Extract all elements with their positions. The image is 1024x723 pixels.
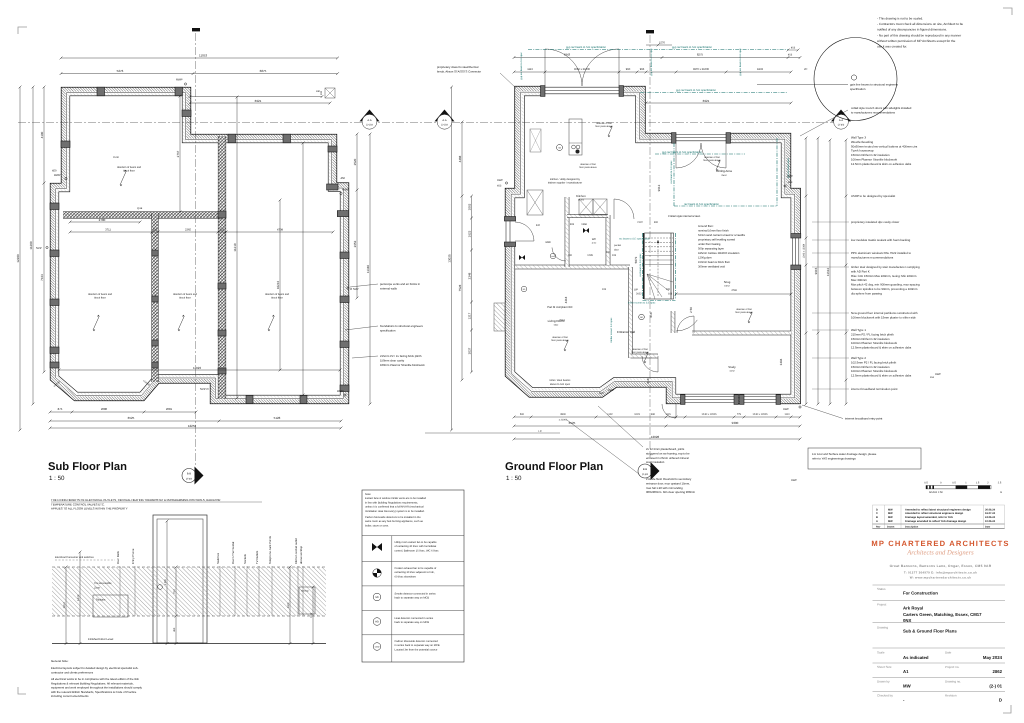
svg-text:- This drawing is not to be sc: - This drawing is not to be scaled. (877, 17, 923, 21)
svg-text:150mm beam & block floor: 150mm beam & block floor (698, 261, 730, 264)
window french door top-left (545, 85, 619, 97)
svg-text:gain line beams to structural: gain line beams to structural engineers (850, 83, 899, 87)
svg-text:entrance door, max upstand 15m: entrance door, max upstand 15mm, (646, 481, 690, 485)
svg-text:direction of first: direction of first (736, 308, 752, 311)
svg-text:2913: 2913 (559, 319, 565, 322)
svg-text:Cooker exhaust fan to be capab: Cooker exhaust fan to be capable of (395, 567, 437, 570)
svg-text:x 2100h: x 2100h (559, 419, 568, 422)
svg-text:Utility room extract fan to be: Utility room extract fan to be capable (395, 541, 438, 544)
svg-text:2862: 2862 (992, 669, 1002, 674)
svg-text:with AD Part K: with AD Part K (851, 269, 870, 273)
svg-text:26 m2: 26 m2 (578, 199, 585, 202)
svg-text:900x900mm. Min clear opening 9: 900x900mm. Min clear opening 900mm (646, 490, 696, 494)
svg-text:Project no.: Project no. (945, 665, 960, 669)
svg-text:Zone: Zone (94, 586, 100, 589)
svg-text:periscope vents and air bricks: periscope vents and air bricks in (380, 282, 420, 286)
svg-text:in line with Building Regulati: in line with Building Regulations requir… (365, 501, 418, 504)
svg-text:11613: 11613 (826, 268, 830, 276)
svg-text:453: 453 (930, 376, 935, 379)
svg-text:TV Outlets: TV Outlets (255, 550, 259, 564)
svg-text:A-A: A-A (367, 119, 372, 122)
svg-text:215mm P2 / FL facing brick pli: 215mm P2 / FL facing brick plinth (380, 354, 422, 358)
section marker A-A mid (435, 110, 455, 122)
svg-text:Max 300mm: Max 300mm (851, 278, 867, 282)
svg-text:max fall 1:40 with min landing: max fall 1:40 with min landing (646, 486, 683, 490)
svg-text:3711: 3711 (105, 228, 111, 231)
svg-text:300mm ventilated void: 300mm ventilated void (698, 266, 725, 269)
svg-text:500p separating layer: 500p separating layer (698, 248, 724, 251)
svg-text:RWP: RWP (176, 78, 183, 82)
svg-text:refer to YAS engineerings draw: refer to YAS engineerings drawings (812, 456, 856, 460)
svg-text:B-B: B-B (643, 468, 648, 471)
svg-text:C: C (876, 512, 878, 515)
svg-text:315: 315 (153, 228, 158, 231)
svg-text:450: 450 (173, 627, 176, 632)
svg-text:CMD: CMD (375, 646, 380, 649)
svg-text:internet broadband termination: internet broadband termination point (851, 387, 898, 391)
svg-text:Extract fans & window trickle: Extract fans & window trickle vents are … (365, 497, 427, 500)
svg-text:Telephone Jack Points: Telephone Jack Points (268, 535, 272, 564)
svg-text:Drainage layout amended, refer: Drainage layout amended, refer to YAS (905, 516, 953, 519)
svg-text:1113: 1113 (527, 68, 533, 71)
svg-text:control, Bathroom 15 l/sec, WC: control, Bathroom 15 l/sec, WC 6 l/sec (395, 549, 440, 552)
section line B-B ground (649, 35, 651, 458)
svg-text:Max pitch 42 deg, min 900mm gu: Max pitch 42 deg, min 900mm guarding, ma… (851, 283, 920, 287)
detail circle (814, 38, 897, 121)
partition horizontal upper (63, 211, 222, 218)
svg-text:manufacturers recommendations: manufacturers recommendations (851, 255, 894, 259)
svg-text:Revision: Revision (945, 694, 957, 698)
svg-text:SCALE 1:50: SCALE 1:50 (929, 491, 943, 494)
svg-text:103: 103 (612, 254, 617, 257)
svg-text:1102: 1102 (607, 413, 613, 416)
svg-text:O SVP: O SVP (350, 287, 359, 291)
svg-text:contractor and clients prefere: contractor and clients preferences (51, 670, 94, 674)
svg-text:53mm sand cement screed or scr: 53mm sand cement screed or screedfix (698, 234, 746, 237)
svg-text:12280: 12280 (16, 254, 20, 263)
svg-text:of extracting 30 l/sec with hu: of extracting 30 l/sec with humidistat (395, 545, 437, 548)
svg-text:I-C: I-C (538, 430, 542, 433)
svg-text:timber stair designed by stair: timber stair designed by stair manufactu… (851, 265, 920, 269)
svg-text:50x50mm treated sw vertical ba: 50x50mm treated sw vertical battens at 4… (851, 144, 918, 148)
svg-text:Amended to reflect latest stru: Amended to reflect latest structural eng… (905, 508, 971, 511)
scale bar (926, 486, 991, 489)
svg-text:kitchen supplier / manufacture: kitchen supplier / manufacturer (548, 182, 582, 185)
svg-text:gyp rec beam to S.E spec: gyp rec beam to S.E spec (520, 52, 523, 80)
svg-text:6921: 6921 (703, 99, 710, 103)
svg-text:RWP: RWP (787, 175, 793, 178)
svg-text:1063: 1063 (467, 203, 471, 210)
svg-text:7528: 7528 (458, 284, 462, 291)
svg-text:Q 88: Q 88 (137, 207, 143, 210)
svg-text:1 200: 1 200 (164, 579, 167, 586)
svg-text:A: A (876, 520, 878, 523)
svg-text:wool insulation: wool insulation (646, 460, 665, 464)
svg-text:Electrical Consumer unit switc: Electrical Consumer unit switches (55, 556, 94, 559)
svg-text:Checked by: Checked by (877, 694, 893, 698)
svg-text:24.06.24: 24.06.24 (985, 516, 996, 519)
svg-text:Entry Phone: Entry Phone (131, 548, 135, 564)
svg-text:to manufacturers recommendatio: to manufacturers recommendations (851, 110, 896, 114)
svg-text:15m2: 15m2 (724, 285, 730, 288)
svg-text:W: www.mpcharteredarchitects.c: W: www.mpcharteredarchitects.co.uk (910, 576, 972, 580)
svg-text:direction of first: direction of first (580, 163, 596, 166)
svg-text:315: 315 (220, 228, 225, 231)
svg-text:L040: L040 (551, 255, 555, 258)
svg-text:MW: MW (888, 512, 893, 515)
svg-text:Carters Green, Matching, Essex: Carters Green, Matching, Essex, CM17 (903, 612, 982, 617)
svg-text:timber screen to S.E spec: timber screen to S.E spec (628, 302, 656, 305)
svg-text:1 : 50: 1 : 50 (506, 475, 522, 482)
svg-text:1570: 1570 (659, 42, 665, 45)
svg-text:9613: 9613 (657, 184, 661, 191)
svg-text:Kitchen: Kitchen (576, 194, 586, 198)
svg-text:9 00: 9 00 (310, 612, 313, 617)
svg-text:4100: 4100 (40, 131, 44, 138)
svg-text:Scale: Scale (877, 651, 885, 655)
svg-text:(2-)04: (2-)04 (186, 477, 193, 480)
svg-text:Description: Description (905, 525, 919, 528)
svg-text:453: 453 (788, 181, 793, 184)
svg-text:4748: 4748 (731, 289, 737, 292)
svg-text:PPC aluminium windows RAL 7022: PPC aluminium windows RAL 7022 installed… (851, 251, 911, 255)
svg-text:Sheet Size: Sheet Size (877, 665, 892, 669)
svg-text:MW: MW (888, 516, 893, 519)
svg-text:2.5: 2.5 (998, 481, 1002, 484)
svg-text:gyp rec beam to S.E specificat: gyp rec beam to S.E specification (662, 151, 702, 154)
notes below ground floor (598, 406, 643, 447)
svg-text:HD: HD (375, 621, 379, 624)
svg-text:2780: 2780 (99, 218, 106, 222)
svg-text:1100: 1100 (287, 602, 290, 608)
svg-text:942: 942 (536, 224, 541, 227)
svg-text:RWP: RWP (935, 373, 941, 376)
svg-text:Finished Floor Level: Finished Floor Level (88, 637, 114, 641)
svg-text:1240 x 1200h: 1240 x 1200h (752, 413, 768, 416)
svg-text:dia sphere from passing: dia sphere from passing (851, 291, 882, 295)
svg-text:1110: 1110 (784, 413, 790, 416)
svg-text:Snug: Snug (724, 280, 731, 284)
svg-text:UP: UP (634, 288, 638, 292)
svg-text:- No part of this drawing shou: - No part of this drawing should be repr… (877, 33, 961, 37)
svg-text:timber screen S.E spec: timber screen S.E spec (610, 317, 613, 343)
window french door top-right (676, 132, 726, 144)
svg-text:rec beam to S.E spec: rec beam to S.E spec (670, 160, 673, 184)
svg-text:Ground floor:: Ground floor: (698, 225, 714, 228)
svg-text:gyp rec beam to S.E spec: gyp rec beam to S.E spec (739, 48, 742, 76)
svg-text:4488: 4488 (458, 155, 462, 162)
chimney hatch outside left wall (494, 303, 505, 331)
svg-text:2520: 2520 (353, 158, 357, 165)
front door opening left wall (504, 221, 516, 242)
window right wall (791, 238, 801, 265)
svg-text:100mm blockwork with 15mm plas: 100mm blockwork with 15mm plaster to eit… (851, 315, 916, 319)
svg-text:nominal 10mm floor finish: nominal 10mm floor finish (698, 230, 729, 233)
svg-text:direction of first: direction of first (704, 156, 720, 159)
revision table (873, 505, 1005, 529)
svg-text:Sub & Ground Floor Plans: Sub & Ground Floor Plans (903, 629, 957, 634)
svg-text:8275: 8275 (697, 53, 704, 57)
svg-text:150mm Dritherm 32 insulation: 150mm Dritherm 32 insulation (851, 153, 890, 157)
svg-text:RWP: RWP (54, 173, 61, 177)
svg-text:proprietary dowel to steel/the: proprietary dowel to steel/thermal (437, 65, 479, 69)
svg-text:boiler, stove or oven.: boiler, stove or oven. (365, 524, 389, 527)
wc partition walls (515, 265, 630, 270)
svg-text:16.07.24: 16.07.24 (985, 512, 996, 515)
svg-text:2080: 2080 (101, 407, 108, 411)
svg-text:4708: 4708 (277, 228, 283, 231)
svg-text:Drawn by: Drawn by (877, 680, 890, 684)
svg-text:foundations to structural engi: foundations to structural engineers (380, 324, 424, 328)
svg-text:D: D (876, 508, 878, 511)
svg-text:453: 453 (788, 54, 793, 57)
svg-text:- Contractors must check all d: - Contractors must check all dimensions … (877, 22, 963, 26)
svg-text:6921: 6921 (255, 99, 262, 103)
svg-text:gyp rec beam to S.E specificat: gyp rec beam to S.E specification (566, 46, 606, 49)
svg-text:notified of any discrepancies: notified of any discrepancies in figured… (877, 28, 947, 32)
svg-text:12.5mm plasterboard & skim on: 12.5mm plasterboard & skim on adhesive d… (851, 346, 912, 350)
svg-text:RWP: RWP (337, 389, 344, 393)
partition vertical left rooms (151, 213, 158, 382)
svg-text:Date: Date (985, 525, 991, 528)
svg-text:779: 779 (737, 413, 742, 416)
svg-text:Weatherboarding: Weatherboarding (851, 140, 874, 144)
svg-text:gyp rec beam to S.E specificat: gyp rec beam to S.E specification (672, 46, 712, 49)
svg-text:Rev: Rev (876, 525, 881, 528)
svg-text:Wall Type 1: Wall Type 1 (851, 328, 866, 332)
svg-text:(2-)03: (2-)03 (441, 124, 448, 127)
wc fixtures (583, 228, 589, 233)
svg-text:SVP: SVP (36, 246, 42, 250)
svg-text:encased in 25mm unfaced minera: encased in 25mm unfaced mineral (646, 456, 689, 460)
svg-text:Heat detector connected in ser: Heat detector connected in series (395, 617, 434, 620)
detail symbol box (325, 88, 335, 98)
Sub Floor Plan walls (50, 87, 349, 404)
svg-text:2081: 2081 (166, 407, 173, 411)
svg-text:A1: A1 (903, 669, 909, 674)
svg-text:1200g dpm: 1200g dpm (698, 257, 712, 260)
svg-text:Worktop: Worktop (301, 590, 310, 593)
svg-text:10.06.24: 10.06.24 (985, 520, 996, 523)
svg-text:500: 500 (520, 413, 525, 416)
partition mid vertical (218, 136, 226, 399)
svg-text:RWP: RWP (608, 389, 614, 392)
svg-text:3494: 3494 (779, 358, 783, 365)
svg-text:APPLIES TO ALL FLOOR LEVELS WI: APPLIES TO ALL FLOOR LEVELS WITHIN THE P… (51, 507, 128, 511)
svg-text:1240 x 1200h: 1240 x 1200h (803, 243, 806, 258)
svg-text:A-A: A-A (442, 119, 447, 122)
section line A-A (18, 121, 846, 123)
svg-text:May 2024: May 2024 (983, 655, 1003, 660)
svg-text:14 00: 14 00 (77, 594, 80, 601)
svg-text:external walls: external walls (380, 286, 398, 290)
svg-text:2122: 2122 (637, 221, 643, 224)
svg-text:Switches: Switches (216, 552, 220, 564)
svg-text:MP CHARTERED ARCHITECTS: MP CHARTERED ARCHITECTS (871, 539, 1009, 548)
svg-text:without written permission of: without written permission of MP Archite… (877, 39, 956, 43)
svg-text:125 0: 125 0 (63, 602, 66, 609)
svg-text:floor joists above: floor joists above (579, 166, 597, 169)
svg-text:(2-)04: (2-)04 (642, 473, 649, 476)
svg-text:Ventilation Heat Recovery) sys: Ventilation Heat Recovery) system is to … (365, 510, 425, 513)
svg-text:6525: 6525 (569, 421, 576, 425)
svg-text:use it was created for.: use it was created for. (877, 45, 907, 49)
svg-text:RWP: RWP (783, 408, 789, 411)
svg-text:220: 220 (320, 90, 323, 95)
living room partition (628, 267, 633, 358)
svg-text:Architects and Designers: Architects and Designers (906, 550, 974, 557)
svg-text:100mm Plasmor Stranlite blockw: 100mm Plasmor Stranlite blockwork (851, 158, 898, 162)
svg-text:in series back to separate way: in series back to separate way on MCB. (395, 644, 441, 647)
svg-text:875: 875 (58, 407, 63, 411)
svg-text:rec beam to S.E specification: rec beam to S.E specification (619, 238, 651, 241)
svg-text:Drawing: Drawing (877, 626, 888, 630)
svg-text:215mm P2 / FL facing brick pli: 215mm P2 / FL facing brick plinth (851, 332, 894, 336)
svg-text:Drawing no.: Drawing no. (945, 680, 961, 684)
svg-text:330: 330 (651, 413, 656, 416)
svg-text:Tyvek housewrap: Tyvek housewrap (851, 149, 874, 153)
svg-text:extracting 30 l/sec adjacent t: extracting 30 l/sec adjacent to hob, (395, 571, 435, 574)
svg-text:1023: 1023 (634, 413, 640, 416)
svg-text:lintel / steel beams: lintel / steel beams (550, 379, 571, 382)
svg-text:102.5mm P2 / FL facing brick p: 102.5mm P2 / FL facing brick plinth (851, 360, 897, 364)
svg-text:Ground Floor Plan: Ground Floor Plan (505, 461, 603, 473)
svg-text:Study: Study (728, 365, 736, 369)
svg-text:100mm Plasmor Stranlite blockw: 100mm Plasmor Stranlite blockwork (851, 369, 898, 373)
svg-text:3500: 3500 (560, 413, 566, 416)
svg-text:Radiator: Radiator (96, 599, 106, 602)
svg-text:direction of first: direction of first (552, 336, 568, 339)
svg-text:2348: 2348 (467, 272, 471, 279)
svg-text:For Foul and Surface water dra: For Foul and Surface water drainage desi… (812, 452, 877, 456)
svg-text:100mm Plasmor Stranlite blockw: 100mm Plasmor Stranlite blockwork (851, 341, 898, 345)
svg-text:rec beam to S.E specification: rec beam to S.E specification (684, 203, 719, 206)
door swing arcs (545, 49, 582, 86)
svg-text:3060 x 2100h: 3060 x 2100h (574, 68, 591, 71)
svg-text:450: 450 (341, 177, 346, 180)
svg-text:6875: 6875 (260, 69, 267, 73)
svg-text:under floor heating: under floor heating (698, 243, 721, 246)
section marker B-B sub (182, 469, 196, 483)
Ground Floor Plan walls (505, 86, 800, 404)
svg-text:1 : 50: 1 : 50 (49, 475, 65, 482)
svg-text:above worktop: above worktop (299, 545, 303, 564)
piers/lintels sub floor (61, 141, 70, 148)
section marker A-A right (831, 110, 851, 122)
svg-text:unless it is confirmed that a: unless it is confirmed that a full MVHR … (365, 506, 424, 509)
svg-text:11023: 11023 (193, 366, 201, 370)
svg-text:918: 918 (646, 378, 650, 383)
svg-text:ASHP to be designed by special: ASHP to be designed by specialist (851, 194, 895, 198)
svg-text:100mm Plasmor Stranlite blockw: 100mm Plasmor Stranlite blockwork (380, 363, 425, 367)
svg-text:SD: SD (375, 596, 379, 599)
svg-text:1.5: 1.5 (976, 481, 980, 484)
svg-text:1217: 1217 (467, 312, 471, 319)
svg-text:60 l/sec elsewhere: 60 l/sec elsewhere (395, 575, 417, 578)
svg-text:12028: 12028 (651, 435, 660, 439)
svg-text:MW: MW (903, 684, 912, 689)
svg-text:specification: specification (380, 328, 396, 332)
svg-text:12.5mm plasterboard & skim on: 12.5mm plasterboard & skim on adhesive d… (851, 162, 912, 166)
svg-text:between spindles to be 99mm, p: between spindles to be 99mm, preventing … (851, 287, 918, 291)
svg-text:same room as any fuel-burning: same room as any fuel-burning appliance,… (365, 520, 424, 523)
svg-text:150mm clear cavity: 150mm clear cavity (380, 358, 405, 362)
svg-text:2022: 2022 (636, 293, 642, 296)
svg-text:5276: 5276 (117, 69, 124, 73)
kitchen units (530, 129, 541, 152)
svg-text:Sockets: Sockets (243, 553, 247, 564)
svg-text:Carbon Monoxide detectors to b: Carbon Monoxide detectors to be installe… (365, 516, 421, 519)
svg-text:RWP: RWP (342, 188, 349, 192)
svg-text:Project: Project (877, 603, 887, 607)
door frame (153, 515, 207, 643)
svg-text:door: door (614, 249, 619, 252)
corner trim marks (18, 27, 27, 34)
svg-text:12.5mm plasterboard & skim on: 12.5mm plasterboard & skim on adhesive d… (851, 374, 912, 378)
stair (645, 233, 674, 299)
study partition (692, 331, 791, 336)
svg-text:3037: 3037 (467, 347, 471, 354)
svg-text:Smoke detector connected in se: Smoke detector connected in series (395, 593, 437, 596)
svg-text:Carbon Monoxide detector conne: Carbon Monoxide detector connected (395, 640, 439, 643)
svg-text:I/C: I/C (804, 68, 807, 71)
svg-text:0.5: 0.5 (952, 481, 956, 484)
svg-text:15.00: 15.00 (113, 156, 119, 159)
svg-text:25m2: 25m2 (721, 174, 727, 177)
svg-text:9300: 9300 (732, 421, 739, 425)
svg-text:11053: 11053 (199, 53, 207, 57)
svg-text:B: B (876, 516, 878, 519)
svg-text:Room Thermostat: Room Thermostat (231, 541, 235, 564)
svg-text:break, Abson STA/SSTS Connecto: break, Abson STA/SSTS Connector (437, 69, 481, 73)
svg-text:11280: 11280 (29, 241, 33, 249)
svg-text:4318: 4318 (564, 296, 568, 303)
section marker B-B ground (638, 464, 652, 478)
windows bottom wall (685, 394, 734, 404)
svg-text:30.08.24: 30.08.24 (985, 508, 996, 511)
svg-text:1240 x 1200h: 1240 x 1200h (701, 413, 717, 416)
svg-text:453: 453 (791, 47, 796, 50)
svg-text:1368: 1368 (581, 223, 587, 226)
svg-text:1623: 1623 (467, 230, 471, 237)
section line B-B sub (195, 33, 197, 465)
svg-text:Dining Area: Dining Area (716, 169, 732, 173)
svg-text:5873: 5873 (634, 256, 638, 263)
svg-text:303: 303 (570, 223, 575, 226)
svg-text:3480: 3480 (545, 241, 551, 244)
svg-text:Door Bells: Door Bells (116, 550, 120, 564)
svg-text:453: 453 (497, 185, 502, 188)
svg-text:13025: 13025 (447, 254, 451, 263)
svg-text:MW: MW (888, 508, 893, 511)
legend table (362, 490, 464, 662)
svg-text:As indicated: As indicated (903, 655, 929, 660)
svg-text:proprietary self levelling scr: proprietary self levelling screed (698, 239, 736, 242)
svg-text:MW: MW (888, 520, 893, 523)
accessible zone hatch band (52, 567, 326, 616)
svg-text:150mm Dritherm 32 insulation: 150mm Dritherm 32 insulation (851, 365, 890, 369)
svg-text:including current amendments: including current amendments (51, 694, 89, 698)
svg-text:6525: 6525 (128, 416, 135, 420)
svg-text:2365: 2365 (185, 228, 191, 231)
svg-text:cottail style French doors wit: cottail style French doors with sideligh… (851, 106, 912, 110)
svg-text:2 50: 2 50 (689, 307, 693, 313)
svg-text:0NX: 0NX (903, 618, 911, 623)
svg-text:Great Bansons, Bansons Lane, O: Great Bansons, Bansons Lane, Ongar, Esse… (890, 564, 992, 568)
svg-text:Date: Date (945, 651, 952, 655)
svg-text:3970 x 2100h: 3970 x 2100h (693, 68, 710, 71)
svg-text:5943: 5943 (564, 53, 571, 57)
